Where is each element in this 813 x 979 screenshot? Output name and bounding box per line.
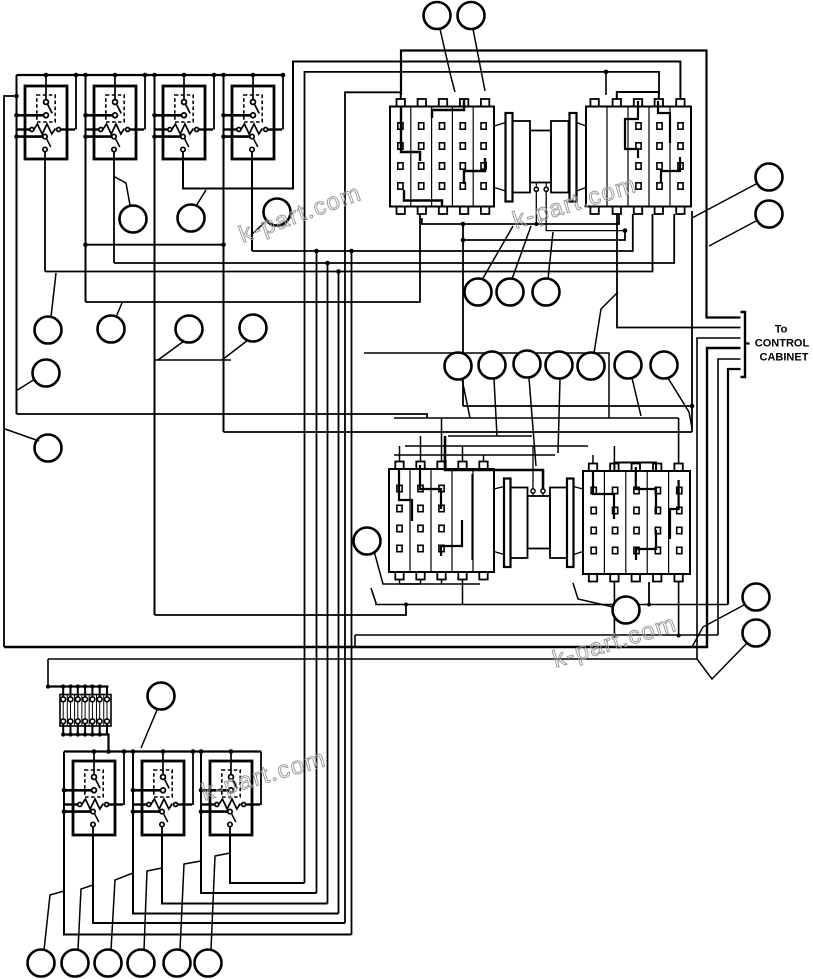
wire: K1 coil return rail	[75, 75, 77, 130]
callout 21 balloon	[578, 292, 619, 380]
coupling between P1 and J1	[495, 113, 587, 202]
wire: K6 coil return rail	[192, 752, 194, 806]
wire: stub left of K1	[4, 96, 17, 647]
wire: rail left of K1	[16, 75, 18, 414]
relay K3	[155, 75, 214, 159]
svg-text:CABINET: CABINET	[760, 352, 809, 364]
callout 8 balloon	[465, 226, 514, 306]
wire: J2 bottom drop	[648, 582, 650, 605]
callout 23 balloon	[651, 352, 693, 429]
wire: bundle wire 1 (x304)	[305, 72, 660, 883]
connector receptacle J2 (right half, middle assembly)	[583, 464, 690, 582]
wire: K3 coil return rail	[213, 75, 215, 130]
wire: x355 drop	[354, 635, 356, 647]
wire: top feed y50	[401, 51, 741, 318]
connector plug P1 (left half, top assembly)	[390, 99, 494, 214]
callout 14 balloon	[222, 315, 267, 361]
wire: K4 coil return rail	[282, 75, 284, 130]
callout 6 balloon	[178, 190, 207, 232]
wire: bottom bundle route 2	[93, 835, 345, 923]
wire: K4 output	[251, 159, 253, 251]
svg-text:CONTROL: CONTROL	[755, 338, 810, 350]
wire: bus y251	[252, 214, 633, 251]
callout 26 balloon	[692, 584, 770, 648]
wire: stub y360	[155, 359, 232, 361]
relay K7	[201, 750, 260, 835]
callout 31 balloon	[95, 873, 134, 977]
wire: vertical from P1 tab wire to bus y406	[462, 224, 464, 406]
junction dots TB1	[61, 684, 65, 688]
relay K2	[86, 75, 145, 159]
wire: TB1 top bus	[48, 685, 109, 687]
callout 2 balloon	[458, 2, 486, 91]
wire: y635 to cabinet	[718, 359, 741, 635]
wire: K7 coil return rail	[260, 752, 262, 806]
wire: bus y659	[48, 338, 741, 659]
wire: J2 tab drop to bus	[678, 582, 680, 636]
coupling between P2 and J2	[494, 479, 583, 568]
wire: bottom relay supply bus	[64, 750, 261, 752]
wire: bundle wire 4	[338, 272, 340, 914]
wire: K3 output	[183, 62, 680, 189]
wire: loop above J1	[617, 92, 659, 99]
wire: bus y263	[114, 214, 674, 263]
svg-text:To: To	[775, 324, 788, 336]
callout 25 balloon	[573, 583, 640, 624]
connector receptacle J1 (right half, top assembly)	[586, 99, 691, 214]
wire: K1 output down	[44, 159, 46, 272]
bracket: To CONTROL CABINET	[741, 312, 746, 377]
callout 1 balloon	[424, 2, 456, 92]
wire: cabinet line y369	[728, 369, 741, 605]
callout 11 balloon	[35, 273, 62, 344]
callout 30 balloon	[62, 885, 94, 977]
wire: buses above assembly 2	[394, 417, 679, 419]
wire: bottom bundle route 4	[162, 835, 328, 904]
callout 28 balloon	[141, 683, 175, 749]
wire: K2 output down	[113, 159, 115, 263]
callout 29 balloon	[28, 891, 65, 977]
wire: bus y414	[17, 414, 428, 418]
terminals above coupling of assembly 2	[445, 436, 545, 496]
wire: tab stubs above J2	[592, 455, 594, 464]
callout 13 balloon	[158, 316, 203, 361]
callout 34 balloon	[195, 853, 231, 977]
wire: P1 tab2 to J1 tab2	[422, 214, 619, 224]
relay K6	[133, 750, 192, 835]
wire: link y244.7	[86, 244, 224, 246]
wire: tab stubs above P2	[399, 446, 401, 462]
callout 4 balloon	[709, 201, 783, 247]
wire: bottom bundle route 5	[201, 752, 317, 894]
wire: K5 coil return rail	[123, 752, 125, 806]
wire: bottom bundle route 1	[64, 752, 352, 935]
wire: bus y240	[463, 231, 625, 240]
junction dots: bottom bus	[92, 749, 97, 754]
junction dots: top bus	[44, 73, 49, 78]
wire: bundle wire 2	[316, 251, 318, 893]
callout 17 balloon	[445, 353, 472, 419]
callout 20 balloon	[546, 352, 573, 454]
wire: bus y635	[355, 634, 718, 636]
wire: rail feeding K2	[85, 75, 87, 302]
wire: rail feeding K4	[223, 75, 225, 432]
wire: bundle wire 5	[345, 92, 401, 923]
wire: J1 right edge drop	[691, 211, 693, 432]
relay K5	[64, 750, 123, 835]
connector plug P2 (left half, middle assembly)	[389, 462, 494, 580]
wire: bottom tab bus of P2	[399, 580, 401, 584]
callout 9 balloon	[497, 226, 532, 306]
wire: bottom bundle route 6	[230, 835, 305, 883]
callout 15 balloon	[18, 360, 60, 391]
callout 3 balloon	[692, 164, 783, 219]
callout 22 balloon	[615, 352, 642, 417]
callout 5 balloon	[114, 177, 147, 233]
callout 7 balloon	[251, 199, 291, 236]
wire: TB1 bottom bus	[63, 735, 109, 752]
callout 27 balloon	[697, 620, 770, 680]
callout 16 balloon	[5, 429, 62, 462]
wire: rail feeding K3	[154, 75, 156, 615]
wire: bundle wire 3	[327, 263, 329, 904]
callout 10 balloon	[533, 232, 560, 306]
callout 33 balloon	[164, 861, 202, 977]
wire: bus y432	[224, 431, 693, 433]
wire: bus y271	[45, 214, 653, 272]
wire: cabinet line y328	[617, 214, 741, 328]
callout 19 balloon	[514, 351, 541, 467]
wire: bus y647	[4, 348, 741, 647]
wire: bus y615	[155, 605, 407, 616]
callout 12 balloon	[98, 303, 125, 343]
callout 32 balloon	[128, 868, 163, 977]
relay K4	[224, 75, 283, 159]
wire: loop above J2	[614, 463, 656, 472]
wire: bus y406	[463, 405, 692, 407]
callout 18 balloon	[479, 352, 506, 437]
wire: x48 drop to terminal strip	[47, 659, 49, 687]
wire: K2 coil return rail	[144, 75, 146, 130]
wire: top relay supply bus	[17, 74, 284, 76]
wire: bus y604	[371, 588, 728, 605]
wire: bottom bundle route 3	[133, 752, 339, 914]
wire: bus y302	[86, 214, 421, 303]
wire: bundle wire 6	[351, 251, 353, 935]
wire: P2 bottom to bus	[462, 584, 464, 605]
callout 24 balloon	[354, 528, 421, 585]
terminals under coupling of assembly 1	[534, 183, 625, 231]
wire: J2 tab2 drop	[613, 582, 615, 636]
terminal strip TB1 with fuses	[60, 687, 111, 735]
relay K1	[17, 75, 76, 159]
